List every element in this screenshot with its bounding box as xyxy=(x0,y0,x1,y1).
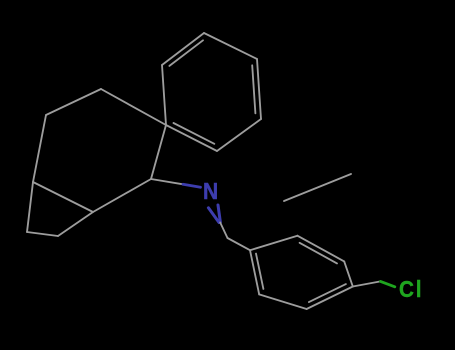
bond Ca-N blue half xyxy=(183,184,201,187)
inner double bond R4-R5 xyxy=(309,284,346,302)
bond C6-C1 top ring xyxy=(162,33,204,65)
inner double bond C4-C5 xyxy=(174,123,215,144)
inner double bond R2-R3 xyxy=(300,243,337,264)
bond ring-Cl gray half xyxy=(353,281,381,286)
bridge bond B1-B2 xyxy=(27,232,58,236)
bond R2-R3 bottom ring xyxy=(297,236,344,262)
bond C4-C5 top ring xyxy=(166,125,217,151)
bond L2-L3 xyxy=(33,182,93,212)
C=N gray continuation xyxy=(220,223,227,239)
bond L5-P5 xyxy=(101,89,166,125)
bond C2-C3 top ring xyxy=(257,59,261,119)
bond R5-R6 bottom ring xyxy=(259,294,306,309)
bond L4-L5 xyxy=(46,89,101,115)
atom label N xyxy=(203,178,218,205)
bond R3-R4 bottom ring xyxy=(344,261,353,286)
bond R6-R1 bottom ring xyxy=(250,250,259,294)
bond R1-R2 bottom ring xyxy=(250,236,297,251)
bond C3-C4 top ring xyxy=(217,119,261,151)
bond Ca-N gray half xyxy=(151,179,183,184)
C=N main line blue half xyxy=(218,205,220,223)
bridge bond L2-B1 xyxy=(58,212,93,236)
inner double bond C6-C1 xyxy=(169,40,203,66)
bond P5-Ca xyxy=(151,125,166,179)
bridge bond B2-L3 xyxy=(27,182,33,232)
C=N second line blue xyxy=(208,208,219,223)
atom label Cl xyxy=(399,276,423,303)
bond R4-R5 bottom ring xyxy=(307,287,353,310)
stray bond upper right xyxy=(284,174,351,201)
bond ring-Cl green half xyxy=(381,281,395,286)
bond Ca-L2 xyxy=(93,179,151,212)
bond C1-C2 top ring xyxy=(204,33,257,59)
inner double bond R6-R1 xyxy=(256,254,263,289)
bond CH-ring xyxy=(228,238,251,250)
inner double bond C2-C3 xyxy=(252,65,255,113)
bond L3-L4 xyxy=(33,115,46,182)
bond C5-C6 top ring xyxy=(162,65,166,125)
